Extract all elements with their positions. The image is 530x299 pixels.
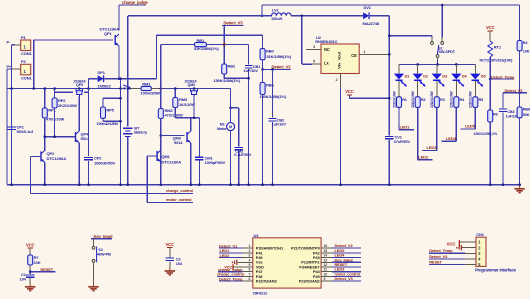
- resistor RB1 51K/1/8W(1%): [195, 43, 207, 47]
- wire QM1 collector: [160, 136, 162, 151]
- wire QM2 stem to node: [193, 97, 195, 118]
- svg-text:Vin: Vin: [337, 62, 342, 68]
- node Detect_V1 stub: [518, 92, 521, 95]
- svg-text:Vout: Vout: [337, 51, 342, 60]
- capacitor CB1 1uF/16V: [248, 45, 250, 65]
- pin 1 U3 left: [243, 247, 254, 249]
- svg-text:RM3: RM3: [179, 97, 188, 102]
- svg-text:Detect_V3: Detect_V3: [224, 20, 244, 25]
- node Detect_V2 at U3 right: [332, 247, 361, 249]
- svg-text:16: 16: [324, 244, 328, 248]
- node LED4 at U3 right: [332, 257, 361, 259]
- resistor R2 22/1/10W: [415, 97, 420, 108]
- junction RM1 right red: [160, 87, 163, 90]
- capacitor C2 104: [166, 257, 174, 259]
- svg-text:15: 15: [324, 249, 328, 253]
- resistor R4 22/1/10W: [454, 97, 459, 108]
- wire R3 to LED3 stub: [436, 107, 438, 150]
- svg-text:6: 6: [249, 268, 251, 272]
- svg-text:1000pF/50V: 1000pF/50V: [205, 160, 226, 165]
- wire RM2 line to bus: [160, 136, 162, 185]
- resistor R4 10K: [519, 5, 521, 41]
- resistor RP2 2K2/1/10W: [54, 89, 56, 99]
- wire QP3 to QP4 collector: [78, 97, 80, 131]
- resistor RM2 47/1/10W: [160, 89, 162, 109]
- wire D5 cathode: [474, 81, 476, 97]
- wire RB2 bottom row: [224, 77, 248, 79]
- svg-text:D1: D1: [405, 75, 410, 79]
- svg-text:CE: CE: [351, 53, 357, 58]
- svg-text:11: 11: [324, 268, 328, 272]
- junction Lx tap: [301, 15, 304, 18]
- switch S1 SW-PB: [92, 246, 95, 249]
- wire QM3 emitter to bus: [190, 143, 192, 185]
- svg-text:SW-SPDT: SW-SPDT: [439, 50, 456, 54]
- svg-text:QM2: QM2: [188, 83, 196, 87]
- wire RT1 to Detect_Temp: [489, 57, 491, 79]
- svg-text:D5: D5: [481, 75, 486, 79]
- svg-text:100mΩ/5W: 100mΩ/5W: [141, 90, 161, 95]
- svg-text:QP3: QP3: [76, 83, 83, 87]
- wire QM1 emitter to bus: [160, 162, 162, 185]
- pin 4 U3 left: [243, 261, 254, 263]
- svg-text:50V/0.1uf: 50V/0.1uf: [17, 129, 34, 134]
- node charge_judge label stub: [119, 4, 146, 6]
- wire corner B rail y35.2: [156, 34, 262, 36]
- resistor RP5 100m/1/8W: [103, 97, 121, 99]
- junction battery node on RM1 row: [127, 87, 130, 90]
- capacitor CM2 0.1uF/50V: [231, 107, 239, 109]
- ground right power gnd: [519, 185, 521, 188]
- wire QP3 collector step to DP1: [84, 91, 88, 93]
- svg-text:CON1: CON1: [21, 51, 32, 56]
- wire switch common to LED bus: [437, 58, 439, 61]
- wire R5 to LED5 stub: [474, 107, 476, 128]
- svg-text:RN5RK301C: RN5RK301C: [315, 39, 337, 44]
- node Detect_Temp to CN1 pin3: [429, 252, 465, 254]
- wire P1 to bus vertical: [12, 44, 15, 46]
- pin 10 U3 right: [321, 275, 332, 277]
- node LED5 at U3 right: [332, 252, 361, 254]
- svg-text:100mΩ/1/8W: 100mΩ/1/8W: [97, 122, 119, 126]
- wire QP1 emitter down: [118, 46, 120, 79]
- svg-text:motor_control: motor_control: [166, 197, 191, 202]
- svg-text:9: 9: [324, 277, 326, 281]
- LED D4: [455, 64, 457, 73]
- LED D5: [474, 64, 476, 73]
- node Detect_V3 at U3 right: [332, 280, 361, 282]
- pin 16 U3 right: [321, 247, 332, 249]
- pin 11 U3 right: [321, 271, 332, 273]
- svg-text:NC: NC: [324, 47, 330, 52]
- svg-text:3: 3: [313, 45, 315, 49]
- power VCC CN1 pin1: [460, 241, 476, 243]
- wire motor top: [230, 108, 232, 123]
- LED D1: [398, 64, 400, 73]
- wire R4 to LED4 stub: [455, 107, 457, 141]
- svg-text:RESET: RESET: [429, 259, 442, 264]
- wire LED anode bus: [399, 63, 475, 65]
- svg-text:3: 3: [249, 254, 251, 258]
- pin 2 Vin wire down to bus: [340, 74, 342, 89]
- svg-text:22Ω/1/10W: 22Ω/1/10W: [469, 90, 473, 107]
- thermistor RT1 NCT223XV103(10K): [488, 41, 493, 57]
- svg-text:Detect_Temp: Detect_Temp: [429, 248, 453, 253]
- capacitor CB2 1uF/16V: [271, 68, 274, 71]
- pin 9 U3 right: [321, 280, 332, 282]
- capacitor CM1 1000pF/50V: [198, 118, 200, 157]
- svg-text:RB0: RB0: [266, 49, 274, 54]
- svg-text:R5: R5: [479, 98, 484, 102]
- svg-text:charge_judge: charge_judge: [122, 0, 148, 5]
- svg-text:12: 12: [324, 263, 328, 267]
- svg-text:47uF/50V: 47uF/50V: [394, 139, 411, 144]
- wire QP4 base rail: [45, 136, 76, 138]
- capacitor CP1: [7, 126, 16, 128]
- svg-text:LED4: LED4: [446, 136, 457, 141]
- svg-text:10: 10: [324, 272, 328, 276]
- svg-text:150K/1/8W(1%): 150K/1/8W(1%): [260, 94, 287, 99]
- wire battery top rail y5: [262, 4, 520, 6]
- pin 13 U3 right: [321, 261, 332, 263]
- svg-text:10K: 10K: [523, 50, 530, 54]
- node RESET to CN1 pin5: [429, 264, 465, 266]
- node RESET stub: [29, 265, 31, 270]
- svg-text:1N5822: 1N5822: [98, 84, 112, 89]
- svg-text:51K/1/8W(1%): 51K/1/8W(1%): [267, 54, 292, 59]
- capacitor CP2 1000UF/50V: [88, 89, 90, 157]
- svg-text:SW-PB: SW-PB: [98, 252, 111, 257]
- svg-text:13: 13: [324, 258, 328, 262]
- wire S1 to ground: [93, 262, 95, 283]
- svg-text:7: 7: [249, 272, 251, 276]
- svg-text:1uF/16V: 1uF/16V: [244, 68, 259, 73]
- svg-text:RM1: RM1: [142, 81, 151, 86]
- wire D3 cathode: [436, 81, 438, 97]
- pin 3 U3 left: [243, 257, 254, 259]
- wire bus riser to QP1 base: [33, 40, 35, 89]
- svg-text:VCC: VCC: [447, 241, 457, 246]
- svg-text:P22/X2/AN3: P22/X2/AN3: [256, 279, 278, 284]
- pin 3 NC stub: [306, 49, 321, 51]
- wire D2 cathode: [417, 81, 419, 97]
- ground C2 power gnd: [169, 267, 171, 270]
- ground key power gnd: [93, 283, 95, 286]
- resistor RB6 50K: [517, 107, 522, 118]
- svg-text:VCC: VCC: [486, 25, 495, 30]
- svg-text:DTC123KA: DTC123KA: [162, 160, 182, 165]
- wire motor feed corner: [230, 89, 232, 108]
- ic U3 78F9212: [253, 238, 321, 288]
- motor M1: [227, 123, 235, 131]
- node LED2 to U3 pin3: [219, 257, 243, 259]
- wire charge_judge drop to QP1 collector: [118, 5, 120, 31]
- svg-text:Lx: Lx: [324, 61, 329, 66]
- svg-text:RB1: RB1: [197, 38, 205, 43]
- svg-text:100uH: 100uH: [271, 16, 283, 21]
- svg-text:CB3: CB3: [507, 110, 514, 114]
- node charge_judge to U3 pin6: [218, 271, 243, 273]
- ground CN1 pin2: [462, 247, 476, 249]
- wire D1 cathode: [398, 81, 400, 97]
- svg-text:22Ω/1/10W: 22Ω/1/10W: [450, 90, 454, 107]
- resistor R5 22/1/10W: [473, 97, 478, 108]
- svg-text:DP1: DP1: [98, 70, 106, 75]
- svg-text:1uF/16V: 1uF/16V: [272, 122, 287, 127]
- svg-text:RP5: RP5: [107, 107, 115, 112]
- node Detect_V1 to U3 pin1: [219, 247, 243, 249]
- wire battery feed from LV1 rail corner A: [127, 16, 129, 127]
- wire corner C riser: [160, 45, 162, 89]
- wire DP1 row: [88, 78, 97, 80]
- svg-text:50K: 50K: [523, 113, 530, 117]
- svg-text:RESET: RESET: [40, 267, 53, 272]
- wire RP5 branch vertical: [120, 79, 122, 185]
- svg-text:VCC: VCC: [26, 242, 35, 247]
- svg-text:R3: R3: [440, 98, 445, 102]
- node Detect_V2 stub: [261, 68, 264, 71]
- pin 7 U3 left: [243, 275, 254, 277]
- wire R4 to RB6: [519, 51, 521, 107]
- svg-text:Detect_Temp: Detect_Temp: [491, 74, 515, 79]
- switch SP1: [119, 87, 122, 90]
- resistor R7 10K: [28, 255, 33, 265]
- wire top supply bus y88.5: [7, 88, 124, 90]
- transistor QP4 9014: [75, 132, 77, 142]
- svg-text:1: 1: [363, 50, 365, 54]
- svg-text:LV1: LV1: [272, 8, 280, 13]
- svg-text:Detect_V1: Detect_V1: [505, 88, 524, 93]
- svg-text:MA2Z748: MA2Z748: [363, 21, 380, 26]
- svg-text:Key_Input: Key_Input: [94, 234, 114, 239]
- svg-text:470/1/10W: 470/1/10W: [46, 117, 64, 122]
- svg-text:VCC: VCC: [166, 242, 175, 247]
- svg-text:22Ω/1/10W: 22Ω/1/10W: [411, 90, 415, 107]
- svg-text:10K/1/10W,1%: 10K/1/10W,1%: [474, 132, 498, 136]
- wire R1 to LED1 stub: [398, 107, 400, 129]
- node motor_control stub: [147, 202, 193, 204]
- wire QM1 base to motor_control: [147, 155, 156, 157]
- svg-text:charge_control: charge_control: [166, 188, 193, 193]
- wire QM3 collector: [190, 118, 192, 131]
- wire QP2 base to charge_control: [31, 155, 42, 157]
- wire P2 to bus: [7, 68, 12, 70]
- wire battery minus to bus: [127, 137, 129, 185]
- svg-text:Detect_Temp: Detect_Temp: [219, 276, 243, 281]
- svg-text:D3: D3: [442, 75, 447, 79]
- node motor_control at U3 right: [332, 275, 361, 277]
- resistor RP1 470/1/10W: [44, 89, 46, 109]
- LED D3: [436, 64, 438, 73]
- svg-text:Detect_V3: Detect_V3: [335, 276, 354, 281]
- node charge_control to U3 pin7: [217, 275, 243, 277]
- svg-text:R1: R1: [402, 98, 407, 102]
- junction RB1/Detect_V3 red: [223, 43, 226, 46]
- svg-text:VCC: VCC: [345, 89, 354, 94]
- svg-text:LED1: LED1: [400, 124, 411, 129]
- switch S2 SW-SPDT: [431, 42, 434, 45]
- svg-text:4: 4: [249, 258, 251, 262]
- wire QP1 base: [34, 39, 113, 41]
- svg-text:Motor: Motor: [217, 127, 227, 131]
- svg-text:R2: R2: [421, 98, 426, 102]
- wire D4 cathode: [455, 81, 457, 97]
- svg-text:Detect_V2: Detect_V2: [272, 65, 292, 70]
- pin 8 U3 left: [243, 280, 254, 282]
- svg-text:QP1: QP1: [104, 31, 112, 36]
- pin 5 Lx wire: [301, 16, 303, 64]
- transistor QM3 9014: [186, 132, 188, 142]
- wire QP3 base from RP2 line: [55, 91, 73, 93]
- svg-text:5: 5: [313, 60, 315, 64]
- svg-text:2: 2: [249, 249, 251, 253]
- wire QP4 emitter to bus: [78, 143, 80, 185]
- svg-text:LED3: LED3: [427, 145, 438, 150]
- svg-text:RT1: RT1: [494, 45, 502, 50]
- junction P1 bus: [10, 87, 13, 90]
- svg-text:QM1: QM1: [162, 154, 171, 159]
- svg-text:M: M: [229, 125, 232, 129]
- svg-text:2: 2: [336, 78, 338, 82]
- svg-text:NCT223XV103(10K): NCT223XV103(10K): [480, 59, 514, 63]
- svg-text:8: 8: [249, 277, 251, 281]
- inductor LV1 100uH: [272, 13, 292, 16]
- node Detect_Temp to U3 pin8: [219, 280, 243, 282]
- svg-text:51K/1/8W(1%): 51K/1/8W(1%): [194, 46, 219, 51]
- connector P2: [21, 64, 31, 75]
- wire motor bottom to bus: [230, 131, 232, 185]
- ground reset power gnd: [29, 283, 31, 286]
- svg-text:P23/X2/AN2: P23/X2/AN2: [299, 279, 321, 284]
- battery BT: [123, 127, 133, 129]
- svg-text:22Ω/1/10W: 22Ω/1/10W: [392, 90, 396, 107]
- wire LV1 rail y15.8: [128, 15, 272, 17]
- svg-text:RM2: RM2: [165, 108, 174, 113]
- svg-text:14: 14: [324, 254, 328, 258]
- svg-text:9014: 9014: [174, 140, 183, 145]
- svg-text:1K/1/10W: 1K/1/10W: [179, 103, 195, 107]
- wire QP2 collector: [44, 149, 46, 152]
- resistor RM1 100m/5W: [131, 88, 141, 90]
- transistor QM1 DTC123KA: [156, 151, 158, 161]
- svg-text:RB2: RB2: [228, 64, 236, 69]
- pin 6 U3 left: [243, 271, 254, 273]
- wire C1 to ground: [29, 278, 31, 284]
- svg-text:LED5: LED5: [465, 124, 476, 129]
- ic U2 RN5RK301C: [321, 44, 359, 74]
- pin 15 U3 right: [321, 252, 332, 254]
- node Key_Input at U3 right: [332, 261, 361, 263]
- svg-text:10K: 10K: [34, 260, 41, 265]
- node charge_control stub: [31, 192, 193, 194]
- power VCC U3 pin5: [233, 266, 253, 268]
- resistor R1 22/1/10W: [397, 97, 402, 108]
- junction motor node: [229, 107, 232, 110]
- node Detect_Temp stub: [489, 78, 492, 81]
- svg-text:1000UF/50V: 1000UF/50V: [94, 160, 116, 165]
- svg-text:47Ω/1/10W: 47Ω/1/10W: [165, 114, 184, 118]
- wire corner C rail y44.6: [161, 44, 195, 46]
- capacitor CB3 1uF/16V: [502, 93, 504, 108]
- pin 1 CE wire: [359, 53, 389, 55]
- node RESET at U3 right: [332, 266, 361, 268]
- pin 14 U3 right: [321, 257, 332, 259]
- capacitor C1 104: [26, 274, 34, 276]
- capacitor CV1 47uF/50V: [385, 135, 393, 137]
- svg-text:Programmer interface: Programmer interface: [475, 268, 517, 273]
- resistor RB0 51K/1/8W(1%): [262, 35, 264, 48]
- resistor RM3 1K/1/10W: [174, 89, 176, 98]
- svg-text:DV1: DV1: [364, 5, 372, 10]
- wire rail y35.7 to switch: [389, 35, 432, 37]
- wire top rail drop to switch: [441, 5, 443, 38]
- junction CP1 bottom bus: [10, 183, 13, 186]
- svg-text:DTC123KA: DTC123KA: [47, 156, 67, 161]
- wire node row y117.8: [175, 117, 199, 119]
- LED D2: [417, 64, 419, 73]
- wire DV1 out corner: [370, 15, 389, 17]
- svg-text:Battery: Battery: [134, 130, 148, 135]
- connector CN1: [476, 237, 486, 266]
- svg-text:1: 1: [249, 244, 251, 248]
- pin 2 U3 left: [243, 252, 254, 254]
- svg-text:RB6: RB6: [523, 108, 530, 112]
- node LED3 at U3 right: [332, 271, 361, 273]
- svg-text:78F9212: 78F9212: [252, 290, 268, 295]
- transistor QP2 DTC123KA: [40, 151, 42, 161]
- svg-text:104: 104: [20, 276, 27, 281]
- svg-text:5: 5: [249, 263, 251, 267]
- svg-text:CN1: CN1: [476, 232, 484, 237]
- wire ground bottom bus: [7, 184, 521, 186]
- wire LV1 to DV1: [291, 15, 363, 17]
- svg-text:2K2/1/10W: 2K2/1/10W: [58, 103, 77, 108]
- pin 12 U3 right: [321, 266, 332, 268]
- svg-text:D2: D2: [423, 75, 428, 79]
- wire QP2 emitter to bus: [44, 163, 46, 185]
- node Detect_V3 to CN1 pin4: [429, 258, 465, 260]
- connector P1: [21, 40, 31, 51]
- resistor R6 10K/1/10W: [489, 79, 491, 110]
- svg-text:LED2: LED2: [418, 154, 429, 159]
- svg-text:R6: R6: [493, 112, 498, 116]
- resistor RB2 150K/1/8W(1%): [222, 64, 227, 74]
- resistor R3 22/1/10W: [434, 97, 439, 108]
- resistor RB5 150K/1/8W(1%): [262, 69, 264, 82]
- wire riser LV1 to top rail: [261, 5, 263, 16]
- svg-text:Detect_V3: Detect_V3: [429, 254, 448, 259]
- wire R2 to LED2 stub: [417, 107, 419, 159]
- pin 5 U3 left: [243, 266, 254, 268]
- svg-text:RB5: RB5: [266, 83, 274, 88]
- ground U3 Vss pin4: [238, 261, 254, 263]
- node LED1 to U3 pin2: [219, 252, 243, 254]
- svg-text:LED2: LED2: [220, 253, 231, 258]
- wire QM3 base rail: [160, 134, 163, 137]
- svg-text:104: 104: [176, 261, 183, 266]
- svg-text:CON1: CON1: [21, 76, 32, 81]
- svg-text:22Ω/1/10W: 22Ω/1/10W: [430, 90, 434, 107]
